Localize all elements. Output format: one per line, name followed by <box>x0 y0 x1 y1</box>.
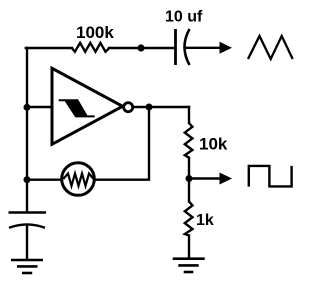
svg-text:10 uf: 10 uf <box>165 9 203 26</box>
svg-text:1k: 1k <box>196 212 214 229</box>
svg-text:100k: 100k <box>76 23 114 42</box>
svg-text:10k: 10k <box>199 135 228 154</box>
